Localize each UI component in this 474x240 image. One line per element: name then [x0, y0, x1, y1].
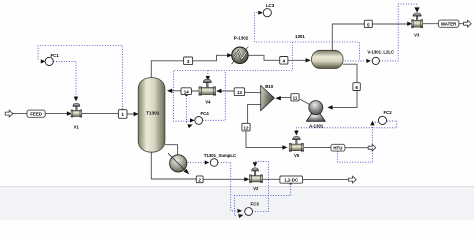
arrow onto V3 actuator: [414, 7, 419, 12]
controller FC4: [195, 111, 210, 124]
signal vessel to L2LC and out to V3: [345, 4, 417, 61]
signal FC3 out to V2: [252, 162, 268, 212]
svg-text:13: 13: [237, 90, 242, 95]
htu product arrow: [368, 144, 376, 151]
arrow into L2LC: [366, 59, 371, 63]
signal V4/FC4 rectangle: [174, 71, 293, 123]
wire box4 to vessel: [288, 59, 306, 61]
svg-text:LC3: LC3: [266, 3, 275, 8]
node box 14: [181, 88, 191, 95]
dc product arrow: [349, 176, 357, 183]
valve V3: [412, 13, 423, 38]
svg-text:V2: V2: [253, 186, 259, 191]
arrow into FC1: [41, 59, 46, 63]
node box 13: [234, 88, 244, 96]
wire box14 to column: [168, 90, 181, 92]
node box 3: [184, 57, 193, 65]
wire column bottom to box2: [151, 150, 196, 179]
valve V2: [249, 168, 262, 191]
svg-text:FC3: FC3: [251, 201, 260, 206]
tap on 1,2-DC box: [290, 182, 292, 184]
arrow into V2: [244, 177, 249, 181]
wire column side to reboiler: [165, 145, 178, 156]
stream HTU: [331, 144, 345, 151]
stream FEED: [27, 110, 45, 117]
arrow up into FC2: [370, 121, 374, 126]
arrow into V5: [282, 145, 287, 149]
valve V4: [199, 79, 216, 105]
svg-text:FC1: FC1: [50, 53, 59, 58]
stream WATER: [438, 20, 458, 27]
svg-text:2: 2: [198, 177, 201, 182]
svg-text:WATER: WATER: [441, 21, 457, 26]
signal HTU tap to FC2: [338, 122, 379, 162]
svg-text:V-1301_L2LC: V-1301_L2LC: [367, 50, 394, 55]
controller FC2: [378, 110, 392, 125]
svg-text:V5: V5: [294, 153, 300, 158]
arrow into FC4 lower: [187, 123, 193, 129]
tap on box14: [185, 94, 187, 96]
svg-text:14: 14: [184, 90, 189, 95]
arrow onto V2 actuator: [253, 162, 258, 167]
arrow onto V1 actuator: [74, 97, 78, 102]
node box 11: [291, 94, 299, 101]
wire V4 to box14: [181, 90, 199, 92]
arrow into V3: [407, 22, 412, 26]
arrow into FC3 upper: [238, 209, 243, 213]
arrow into B10 apex: [275, 96, 280, 100]
signal FC1 loop: [38, 46, 122, 110]
svg-text:V4: V4: [205, 100, 211, 105]
node box 2: [196, 176, 203, 183]
wire feed to V1: [13, 113, 68, 115]
signal reboiler to SumpLC: [187, 162, 203, 164]
wire box2 to V2: [203, 178, 245, 180]
svg-text:T1301: T1301: [146, 110, 159, 115]
controller FC1: [45, 53, 59, 66]
signal FC2 out to V5: [296, 121, 396, 132]
wire box5 to V3: [373, 23, 408, 25]
wire B10 lower port to box12: [248, 104, 261, 123]
wire box11 to B10 apex: [278, 97, 291, 99]
stream 1,2-DC: [280, 176, 303, 183]
feed source arrow: [5, 110, 13, 117]
arrow into SumpLC: [205, 160, 210, 164]
svg-text:5: 5: [367, 22, 370, 27]
arrow into P-1302: [227, 53, 232, 57]
arrow into pump: [327, 105, 332, 109]
wire V5 to HTU: [304, 146, 368, 148]
svg-text:HTU: HTU: [333, 145, 342, 150]
tap on box1: [121, 109, 123, 111]
signal 1,2-DC tap to FC3: [234, 184, 290, 216]
wire B10 to box13: [245, 91, 261, 93]
wire vessel top riser to box5: [332, 24, 364, 51]
svg-text:FEED: FEED: [30, 111, 42, 116]
svg-text:A-1301: A-1301: [309, 124, 324, 129]
arrow into LC3: [258, 11, 263, 15]
node box 12: [242, 123, 250, 131]
svg-text:T1301_SumpLC: T1301_SumpLC: [204, 153, 236, 158]
controller T1301_SumpLC: [204, 153, 236, 166]
heater P-1302: [232, 36, 249, 65]
signal LC3 loop: [255, 13, 360, 71]
svg-text:12: 12: [244, 126, 249, 131]
wire column top to box3: [151, 61, 183, 79]
arrow into column (feed): [134, 112, 139, 116]
node box 5: [364, 20, 372, 27]
controller LC3: [263, 3, 275, 17]
valve V5: [289, 136, 303, 158]
water product arrow: [464, 20, 472, 27]
arrow onto V5 actuator: [294, 131, 299, 136]
svg-text:FC2: FC2: [383, 110, 392, 115]
controller FC3: [245, 201, 260, 215]
wire pump to box11: [300, 99, 310, 105]
wire box13 to V4: [217, 90, 234, 92]
svg-text:3: 3: [187, 59, 190, 64]
node box 4: [280, 57, 288, 65]
tap on HTU box: [337, 149, 339, 151]
pump A-1301: [306, 101, 325, 129]
svg-text:V1: V1: [74, 125, 80, 130]
compressor/splitter B10: [261, 84, 275, 111]
svg-text:1: 1: [121, 112, 124, 117]
vessel V-1301 (reflux drum): [312, 50, 344, 68]
valve V1: [71, 103, 82, 129]
arrow onto V4 actuator: [206, 76, 210, 81]
bottom band: [0, 187, 474, 221]
node box 6: [353, 83, 360, 91]
wire V1 to box1 to column: [82, 113, 136, 115]
reboiler: [168, 153, 189, 174]
wire vessel outlet down through box6 to pump: [329, 64, 358, 107]
arrow into FC3 lower: [238, 213, 244, 218]
svg-text:V3: V3: [414, 32, 420, 37]
arrow into V4: [216, 89, 221, 93]
arrow into V1: [67, 111, 72, 115]
arrow into vessel: [306, 58, 311, 62]
wire V3 to WATER: [423, 23, 464, 25]
controller V-1301_L2LC: [367, 50, 394, 65]
wire V2 to 1,2-DC and product: [263, 178, 348, 180]
wire box12 down to V5: [246, 131, 283, 148]
svg-text:1,2-DC: 1,2-DC: [284, 177, 299, 182]
wire P-1302 to box4: [248, 55, 279, 60]
svg-text:6: 6: [355, 85, 358, 90]
svg-text:1301: 1301: [295, 34, 305, 39]
svg-text:4: 4: [283, 59, 286, 64]
arrow into FC4 upper: [190, 118, 195, 122]
svg-text:B10: B10: [265, 84, 274, 89]
signal SumpLC to FC3: [218, 163, 237, 211]
svg-text:FC4: FC4: [200, 111, 209, 116]
node box 1: [118, 110, 127, 119]
svg-text:P-1302: P-1302: [234, 36, 249, 41]
wire box3 to P-1302: [193, 55, 229, 61]
arrow into column (reflux): [167, 89, 172, 93]
svg-text:11: 11: [293, 96, 298, 101]
column T1301: [138, 78, 165, 153]
